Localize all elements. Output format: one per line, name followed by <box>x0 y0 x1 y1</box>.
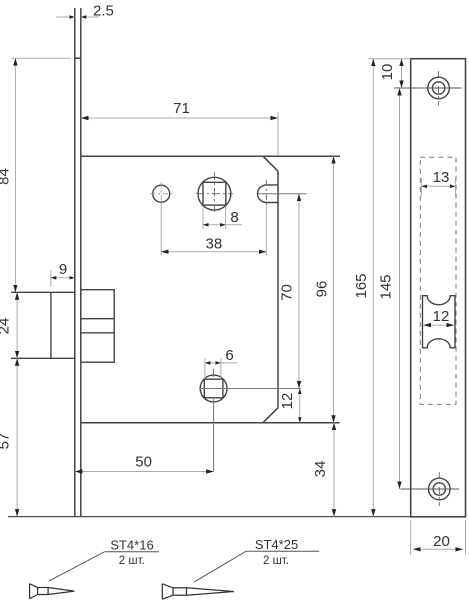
bottom extension line <box>8 516 410 518</box>
latch bolt (protruding) <box>11 292 75 358</box>
svg-text:96: 96 <box>314 281 331 298</box>
screw ST4*25 <box>162 584 234 599</box>
dimension 50 (bottom) <box>75 471 214 473</box>
dimension 84 (left) <box>11 58 70 292</box>
svg-text:2 шт.: 2 шт. <box>263 555 289 567</box>
svg-text:2.5: 2.5 <box>93 3 114 20</box>
dimension 24 (latch height) <box>16 292 18 358</box>
dimension 70 <box>298 194 300 389</box>
bottom screw hole <box>429 478 451 500</box>
slot vertical center dash <box>265 180 267 208</box>
svg-text:12: 12 <box>433 308 450 325</box>
svg-text:71: 71 <box>173 100 190 117</box>
spindle hole (upper, circle with 8mm square) <box>198 177 231 210</box>
dimension 8 (square width) <box>203 206 242 229</box>
svg-text:50: 50 <box>135 454 152 471</box>
svg-text:20: 20 <box>433 533 450 550</box>
dimension 13 <box>429 168 453 184</box>
dimension 145 <box>399 88 401 489</box>
dimension 20 (plate width) <box>411 520 466 555</box>
top screw hole <box>428 77 450 99</box>
center lines of spindle hole <box>196 172 233 214</box>
svg-text:12: 12 <box>279 393 296 410</box>
slot at case right edge <box>257 185 278 203</box>
svg-text:ST4*25: ST4*25 <box>255 537 298 552</box>
small hole center marks <box>150 183 173 206</box>
faceplate side view (left) <box>75 8 81 517</box>
svg-text:34: 34 <box>312 461 329 478</box>
svg-text:9: 9 <box>59 261 67 278</box>
svg-text:8: 8 <box>230 209 238 226</box>
dimension 165 <box>372 59 374 517</box>
top hole center lines <box>394 87 462 89</box>
dimension 34 <box>333 423 335 517</box>
spool-shaped cutout <box>423 296 456 348</box>
svg-text:13: 13 <box>433 169 450 186</box>
svg-text:38: 38 <box>206 236 223 253</box>
svg-text:145: 145 <box>378 274 395 299</box>
dimension 12 (lower right) <box>299 389 301 423</box>
svg-text:2 шт.: 2 шт. <box>119 555 145 567</box>
svg-text:57: 57 <box>0 433 13 450</box>
svg-text:24: 24 <box>0 318 13 335</box>
svg-text:6: 6 <box>225 347 233 364</box>
top extension for 165/plate <box>368 58 411 60</box>
dimension 57 (lower plate) <box>16 358 18 516</box>
lower hole center lines <box>213 369 215 378</box>
lower spindle hole (circle with 6mm square) <box>200 375 227 402</box>
dimension 9 (latch protrusion) <box>51 271 75 288</box>
faceplate front outline <box>411 59 466 517</box>
bottom hole center lines <box>401 488 460 490</box>
dimension 2.5 (plate thickness) <box>56 16 99 18</box>
dimension 38 <box>161 203 266 256</box>
dimension 10 <box>401 59 403 88</box>
dimension 71 (top) <box>81 112 278 156</box>
leader ST4*25 <box>194 551 319 582</box>
svg-text:165: 165 <box>353 273 370 298</box>
dashed hidden rectangle <box>420 157 456 404</box>
svg-text:10: 10 <box>379 64 396 81</box>
svg-text:ST4*16: ST4*16 <box>110 538 153 553</box>
leader ST4*16 <box>49 552 159 581</box>
slot center line to 70-dim <box>258 193 307 195</box>
dimension 96 <box>333 156 335 423</box>
svg-text:70: 70 <box>279 284 296 301</box>
latch box inside case <box>81 290 114 363</box>
dimension 12 (spool width) <box>424 324 455 326</box>
screw ST4*16 <box>30 584 75 599</box>
small hole <box>153 185 170 202</box>
dimension 6 (lower square) <box>205 359 237 380</box>
svg-text:84: 84 <box>0 168 13 185</box>
lock case outline <box>81 156 340 423</box>
